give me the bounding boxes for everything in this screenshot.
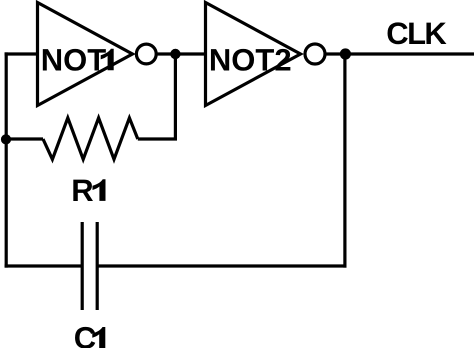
svg-text:R: R xyxy=(71,173,93,208)
wire: from junction down to R1 right terminal xyxy=(174,54,177,139)
wire: bottom rail right (C1 right plate to right rail) xyxy=(97,264,346,267)
junction: CLK node xyxy=(340,48,351,59)
junction: node between NOT1 output and R1 xyxy=(170,49,180,59)
svg-text:NOT: NOT xyxy=(41,42,107,77)
resistor R1 (zigzag) xyxy=(43,118,138,159)
svg-text:NOT2: NOT2 xyxy=(209,42,292,77)
svg-text:CLK: CLK xyxy=(386,16,447,51)
wire: NOT1 input stub xyxy=(5,52,38,55)
inverter NOT1 triangle xyxy=(38,3,133,106)
wire: NOT1 output to NOT2 input xyxy=(156,52,205,55)
inverter NOT2 triangle xyxy=(206,3,301,106)
junction: left rail to R1 xyxy=(1,134,11,144)
inverter NOT2 output bubble xyxy=(305,44,325,64)
wire: left feedback rail (vertical, from NOT1 input down to bottom rail) xyxy=(5,52,8,267)
wire: bottom rail left (left rail to C1 left plate) xyxy=(5,264,83,267)
capacitor C1 left plate xyxy=(81,222,84,310)
capacitor C1 right plate xyxy=(96,222,99,310)
wire: right feedback rail (vertical from CLK node down) xyxy=(343,54,346,268)
wire: R1 left stub xyxy=(6,137,43,140)
wire: R1 right stub xyxy=(138,137,177,140)
inverter NOT1 output bubble xyxy=(136,44,156,64)
wire: NOT2 output to CLK (right edge) xyxy=(325,52,474,55)
